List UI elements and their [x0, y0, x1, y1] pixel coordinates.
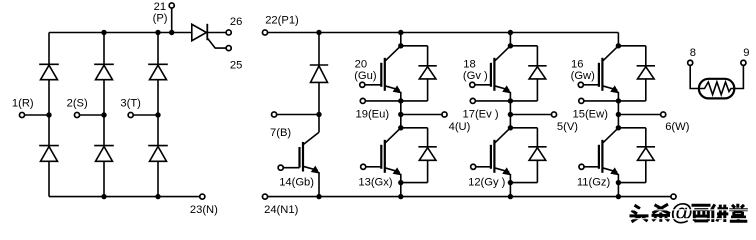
node N1 rail junction — [616, 194, 621, 199]
node upper split junction — [508, 43, 513, 48]
wire spine E row to out row — [617, 101, 619, 115]
wire spine out row to lower split — [509, 115, 511, 128]
svg-text:(Gu): (Gu) — [354, 70, 377, 82]
terminal gate terminal of upper IGBT 20(Gu) — [360, 82, 365, 87]
wire spine E row to out row — [509, 101, 511, 115]
diode D2 (leg 2 upper) (cathode bar top, apex up) — [103, 33, 105, 65]
node emitter node (E row) — [508, 98, 513, 103]
svg-text:20: 20 — [355, 59, 367, 71]
transistor upper IGBT 20(Gu) (IGBT) — [365, 46, 402, 101]
diode lower freewheel of phase (cathode bar top, apex up) — [536, 128, 538, 147]
watermark logo text — [630, 204, 748, 222]
wire spine node to N1 rail — [617, 183, 619, 197]
wire spine out row to lower split — [400, 115, 402, 128]
node emitter node (E row) — [398, 98, 403, 103]
wire spine out row to lower split — [617, 115, 619, 128]
terminal terminal 23 (N) — [200, 194, 205, 199]
wire output stub — [401, 114, 442, 116]
svg-text:2(S): 2(S) — [67, 97, 88, 109]
wire input stub 3(T) — [133, 114, 158, 116]
node emitter node (E row) — [616, 98, 621, 103]
wire output stub — [510, 114, 551, 116]
terminal terminal at right end of N1 rail — [671, 194, 676, 199]
svg-text:21: 21 — [154, 1, 166, 13]
node output junction — [616, 112, 621, 117]
freewheel diode upper freewheel of phase bracket — [401, 45, 428, 47]
thermistor zigzag element — [701, 82, 734, 95]
terminal terminal 21 (P) — [169, 3, 174, 8]
node N1 rail junction brake leg — [316, 194, 321, 199]
thyristor (brake chopper SCR) anode from P rail — [192, 24, 226, 48]
wire spine rail to split — [617, 33, 619, 46]
node leg junction 1(R) — [46, 112, 51, 117]
wire drop from terminal 21 to P rail — [171, 8, 173, 32]
svg-text:(Gw): (Gw) — [571, 70, 596, 82]
terminal terminal 9 — [741, 60, 746, 65]
wire spine rail to split — [509, 33, 511, 46]
terminal input terminal 3(T) — [128, 112, 133, 117]
transistor lower IGBT 13(Gx) (IGBT) — [366, 128, 402, 183]
diode D6 (leg 3 lower) (cathode bar top, apex up) — [157, 115, 159, 146]
svg-text:13(Gx): 13(Gx) — [358, 176, 392, 188]
node brake node 7(B) — [316, 112, 321, 117]
svg-text:4(U): 4(U) — [449, 121, 471, 133]
terminal output terminal 4(U) — [442, 112, 447, 117]
svg-text:18: 18 — [463, 59, 475, 71]
node P1 rail junction brake leg — [316, 30, 321, 35]
terminal gate terminal of upper IGBT 18(Gv ) — [470, 82, 475, 87]
svg-text:(P): (P) — [153, 12, 168, 24]
terminal terminal 24 (N1) — [262, 194, 267, 199]
svg-text:5(V): 5(V) — [557, 121, 578, 133]
wire E-row stub — [475, 100, 510, 102]
terminal terminal 8 — [688, 60, 693, 65]
node bottom rail junction — [101, 194, 106, 199]
diode D3 (leg 3 upper) (cathode bar top, apex up) — [157, 33, 159, 65]
svg-text:14(Gb): 14(Gb) — [279, 176, 314, 188]
svg-text:@: @ — [671, 199, 693, 225]
wire P1 rail — [268, 32, 619, 34]
terminal terminal 26 (thyristor cathode) — [226, 30, 231, 35]
freewheel diode lower freewheel of phase bracket — [618, 127, 645, 129]
terminal gate terminal of lower IGBT 13(Gx) — [361, 164, 366, 169]
terminal gate terminal of lower IGBT 12(Gy ) — [471, 164, 476, 169]
wire E-row stub — [365, 100, 400, 102]
wire rectifier top rail P — [49, 32, 192, 34]
svg-text:24(N1): 24(N1) — [264, 204, 298, 216]
node upper split junction — [398, 43, 403, 48]
wire N1 rail — [268, 196, 671, 198]
wire spine node to N1 rail — [509, 183, 511, 197]
svg-text:7(B): 7(B) — [270, 127, 291, 139]
terminal input terminal 1(R) — [19, 112, 24, 117]
wire thermistor lead left — [690, 65, 701, 88]
terminal terminal 17(Ev ) — [470, 98, 475, 103]
thermistor RT (NTC) body — [699, 79, 734, 99]
node top rail junction — [101, 30, 106, 35]
transistor lower IGBT 11(Gz) (IGBT) — [584, 128, 619, 183]
svg-text:11(Gz): 11(Gz) — [577, 176, 611, 188]
transistor upper IGBT 16(Gw) (IGBT) — [583, 46, 619, 101]
terminal gate terminal of upper IGBT 16(Gw) — [578, 82, 583, 87]
diode brake diode D7 (cathode bar top, apex up) — [318, 33, 320, 66]
node lower emitter node — [616, 180, 621, 185]
terminal output terminal 5(V) — [551, 112, 556, 117]
freewheel diode upper freewheel of phase bracket — [510, 45, 537, 47]
freewheel diode upper freewheel of phase bracket — [618, 45, 645, 47]
wire input stub 1(R) — [25, 114, 49, 116]
node P1 rail junction — [398, 30, 403, 35]
node bottom rail junction — [155, 194, 160, 199]
terminal terminal 25 (thyristor gate) — [226, 46, 231, 51]
svg-text:1(R): 1(R) — [12, 97, 34, 109]
terminal terminal 22 (P1) — [262, 30, 267, 35]
terminal gate terminal of 14(Gb) — [278, 165, 283, 170]
svg-text:22(P1): 22(P1) — [265, 15, 299, 27]
watermark glitch slits — [628, 209, 754, 210]
svg-text:25: 25 — [230, 60, 242, 72]
svg-text:15(Ew): 15(Ew) — [573, 108, 609, 120]
terminal input terminal 2(S) — [74, 112, 79, 117]
wire spine node to N1 rail — [400, 183, 402, 197]
wire brake spine to IGBT collector — [318, 115, 320, 133]
transistor Q7 14(Gb) (brake IGBT) — [283, 132, 319, 196]
svg-text:9: 9 — [743, 47, 749, 59]
wire stub 7(B) — [277, 114, 319, 116]
node lower split junction — [508, 125, 513, 130]
diode D5 (leg 2 lower) (cathode bar top, apex up) — [103, 115, 105, 146]
wire rectifier bottom rail N — [49, 196, 200, 198]
node N1 rail junction — [398, 194, 403, 199]
node lower split junction — [616, 125, 621, 130]
diode upper freewheel of phase (cathode bar top, apex up) — [536, 46, 538, 66]
node output junction — [508, 112, 513, 117]
wire input stub 2(S) — [80, 114, 104, 116]
node lower split junction — [398, 125, 403, 130]
transistor upper IGBT 18(Gv ) (IGBT) — [475, 46, 511, 101]
svg-text:3(T): 3(T) — [120, 97, 141, 109]
wire thermistor lead right — [734, 65, 744, 88]
wire spine E row to out row — [400, 101, 402, 115]
diode upper freewheel of phase (cathode bar top, apex up) — [645, 46, 647, 66]
svg-text:19(Eu): 19(Eu) — [356, 108, 390, 120]
diode D4 (leg 1 lower) (cathode bar top, apex up) — [48, 115, 50, 146]
svg-text:8: 8 — [690, 47, 696, 59]
freewheel diode lower freewheel of phase bracket — [510, 127, 537, 129]
svg-text:16: 16 — [571, 59, 583, 71]
wire E-row stub — [584, 100, 619, 102]
svg-text:(Gv ): (Gv ) — [463, 70, 488, 82]
terminal gate terminal of lower IGBT 11(Gz) — [579, 164, 584, 169]
node P1 rail junction — [508, 30, 513, 35]
svg-text:23(N): 23(N) — [190, 204, 218, 216]
diode D1 (leg 1 upper) (cathode bar top, apex up) — [48, 33, 50, 65]
transistor lower IGBT 12(Gy ) (IGBT) — [476, 128, 511, 183]
node top rail junction — [155, 30, 160, 35]
svg-text:6(W): 6(W) — [665, 121, 690, 133]
terminal output terminal 6(W) — [661, 112, 666, 117]
node leg junction 3(T) — [155, 112, 160, 117]
svg-text:26: 26 — [230, 16, 242, 28]
terminal terminal 7 (B) — [272, 112, 277, 117]
node output junction — [398, 112, 403, 117]
node leg junction 2(S) — [101, 112, 106, 117]
node P rail junction at 21 drop — [169, 30, 174, 35]
diode lower freewheel of phase (cathode bar top, apex up) — [645, 128, 647, 147]
wire output stub — [618, 114, 660, 116]
diode lower freewheel of phase (cathode bar top, apex up) — [427, 128, 429, 147]
wire spine rail to split — [400, 33, 402, 46]
svg-text:12(Gy ): 12(Gy ) — [468, 176, 506, 188]
freewheel diode lower freewheel of phase bracket — [401, 127, 428, 129]
diode upper freewheel of phase (cathode bar top, apex up) — [427, 46, 429, 66]
node N1 rail junction — [508, 194, 513, 199]
node lower emitter node — [398, 180, 403, 185]
svg-text:17(Ev ): 17(Ev ) — [463, 108, 499, 120]
node lower emitter node — [508, 180, 513, 185]
terminal terminal 15(Ew) — [579, 98, 584, 103]
node upper split junction — [616, 43, 621, 48]
terminal terminal 19(Eu) — [360, 98, 365, 103]
